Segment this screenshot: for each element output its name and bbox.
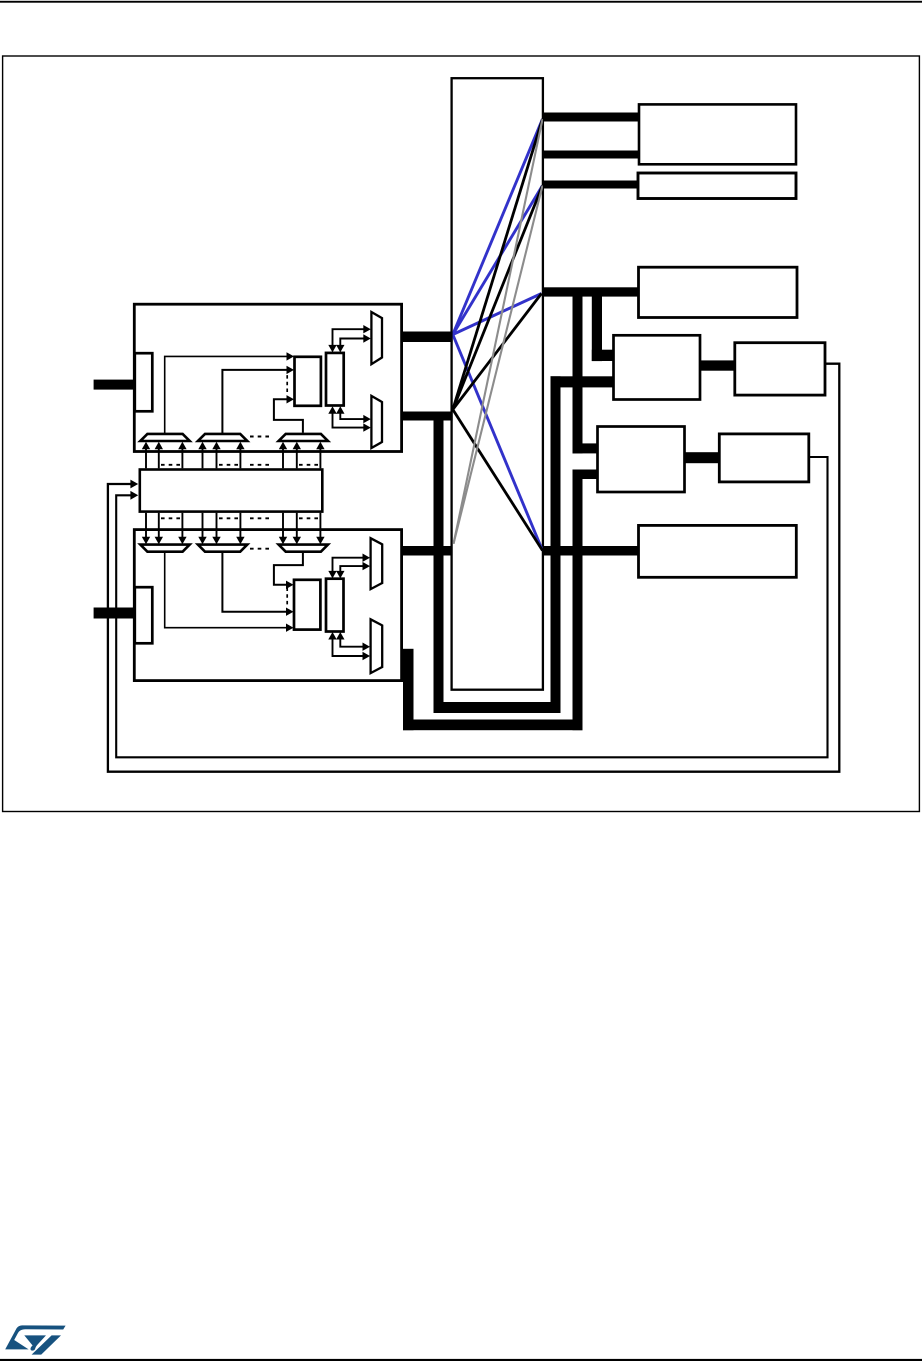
bus matrix to box1 upper	[543, 113, 640, 122]
boxF	[639, 525, 797, 577]
block2 small left rect	[135, 587, 153, 643]
bus matrix to box1 lower	[543, 151, 640, 159]
block2 wire mux3 to mid rect	[274, 552, 303, 584]
bus v2 to boxB upper	[592, 296, 602, 361]
block1 elbow e1	[333, 329, 365, 345]
block1 mux input stems and arrows	[146, 448, 320, 469]
arrow into middle rect lower	[130, 491, 138, 500]
bus boxD to boxE	[685, 452, 721, 463]
block1 elbow e2	[340, 339, 364, 346]
block2 elbow b2	[340, 639, 364, 647]
bus matrix to boxA	[543, 287, 640, 296]
bus boxB upper entry	[592, 350, 615, 361]
boxA	[639, 267, 798, 317]
block2 input mux1	[140, 545, 189, 552]
bus loop1 left vertical	[434, 412, 444, 713]
block2 wire mux2 to mid rect	[222, 552, 287, 612]
block1 wire mux2 to mid rect	[222, 370, 287, 434]
block1 small left rect	[135, 353, 153, 411]
boxC	[735, 343, 825, 395]
bus boxB lower entry	[551, 376, 615, 387]
matrix routing fan: gray lines from node P3	[454, 119, 543, 544]
channel selection middle rect	[140, 470, 322, 512]
bus loop1 right vertical v3	[551, 376, 561, 713]
block1 input stub	[94, 380, 136, 390]
bus boxD lower entry	[573, 470, 599, 480]
arrow into middle rect upper	[130, 480, 138, 489]
block2 mux input stems and arrows	[146, 513, 320, 538]
block2 dashed vertical at mid rect	[286, 588, 288, 608]
figure frame	[3, 56, 920, 812]
box2	[638, 173, 796, 199]
boxD	[598, 427, 685, 493]
block1 input mux3	[279, 434, 328, 441]
block2 input stub	[94, 608, 136, 619]
matrix routing fan: black lines from node P2	[453, 119, 543, 551]
rail dashes upper	[161, 464, 318, 466]
block ADC2 outer	[134, 530, 401, 681]
block1 tall thin rect	[326, 353, 344, 406]
bus boxD upper entry	[573, 443, 599, 453]
block1 input mux2	[198, 434, 247, 441]
block1 elbow e3	[333, 413, 365, 428]
block2 wire mux1 to mid rect	[165, 552, 287, 628]
header rule	[0, 1, 922, 3]
block1 output mux bottom trapezoid	[371, 396, 382, 448]
bus block2 top output	[402, 546, 452, 556]
bus block2 bottom stub vertical	[403, 649, 414, 730]
block1 mux dashes	[250, 436, 270, 438]
block1 output mux top trapezoid	[371, 312, 382, 364]
bus v1 to boxD upper	[573, 296, 583, 453]
block1 wire mux3 to mid rect	[274, 399, 303, 432]
box1 top right	[639, 104, 796, 164]
footer rule	[0, 1359, 922, 1361]
block2 mux dashes	[250, 548, 270, 550]
bus loop2 bottom	[403, 720, 583, 731]
block1 input mux1	[140, 434, 189, 441]
bus loop1 bottom	[434, 702, 561, 713]
block2 elbow t2	[340, 566, 364, 572]
block2 elbow t1	[333, 558, 365, 572]
block2 output mux top trapezoid	[371, 538, 383, 589]
switch matrix	[452, 78, 543, 690]
feedback loop outer from boxC	[108, 364, 839, 772]
block2 elbow b1	[333, 639, 365, 656]
bus matrix to boxF	[543, 546, 640, 556]
block2 tall thin rect	[326, 579, 344, 632]
block2 output mux bottom trapezoid	[371, 619, 383, 673]
bus block1 bottom output	[402, 412, 453, 421]
feedback loop inner from boxE	[116, 457, 827, 757]
block1 mid rect	[295, 357, 321, 406]
matrix routing fan: blue lines from node P1	[453, 119, 543, 551]
boxE	[719, 434, 809, 482]
boxB	[614, 335, 701, 399]
block ADC1 outer	[134, 304, 401, 451]
block2 mid rect	[294, 580, 320, 630]
block2 input mux2	[198, 545, 247, 552]
block1 dashed vertical at mid rect	[286, 375, 288, 395]
bus loop2 right vertical v4	[573, 470, 583, 731]
bus boxB to boxC	[700, 360, 736, 370]
block1 wire mux1 to mid rect	[165, 356, 288, 433]
block1 elbow e4	[340, 413, 364, 419]
rail dashes lower	[161, 517, 318, 519]
bus matrix to box2	[543, 181, 639, 189]
bus block1 top output	[402, 332, 453, 343]
ST logo	[5, 1325, 65, 1354]
block2 input mux3	[279, 545, 328, 552]
